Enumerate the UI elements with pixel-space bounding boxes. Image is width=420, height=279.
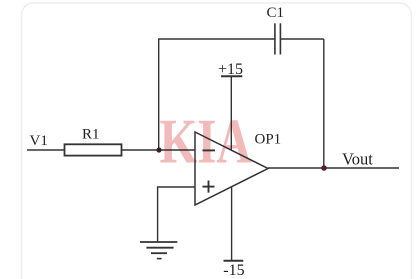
wire capacitor to right vertical [281, 38, 324, 40]
svg-text:Vout: Vout [342, 149, 373, 168]
svg-text:KIA: KIA [160, 107, 252, 176]
wire V1 input [27, 149, 65, 151]
op-amp plus input sign [203, 181, 215, 193]
svg-text:-15: -15 [223, 262, 244, 279]
power +15 terminal bar [221, 75, 242, 77]
wire +15 stem [230, 76, 232, 150]
ground [140, 242, 177, 259]
wire R1 to node A [122, 149, 196, 151]
wire feedback right vertical [323, 39, 325, 168]
wire feedback left vertical [158, 39, 160, 150]
svg-text:V1: V1 [30, 133, 48, 149]
wire non-inverting input [158, 187, 195, 242]
wire -15 stem [231, 187, 233, 261]
resistor R1 [65, 144, 122, 155]
svg-text:+15: +15 [218, 61, 243, 78]
wire feedback top horizontal [158, 38, 275, 40]
svg-text:C1: C1 [267, 5, 285, 21]
svg-text:OP1: OP1 [255, 132, 282, 148]
capacitor C1 [275, 23, 281, 54]
power -15 terminal bar [224, 260, 244, 262]
wire output [268, 167, 399, 169]
node Vout junction dot [321, 165, 327, 171]
svg-text:R1: R1 [82, 127, 100, 143]
op-amp OP1 [195, 132, 268, 205]
op-amp minus input sign [203, 149, 216, 151]
node A junction dot [156, 147, 161, 152]
